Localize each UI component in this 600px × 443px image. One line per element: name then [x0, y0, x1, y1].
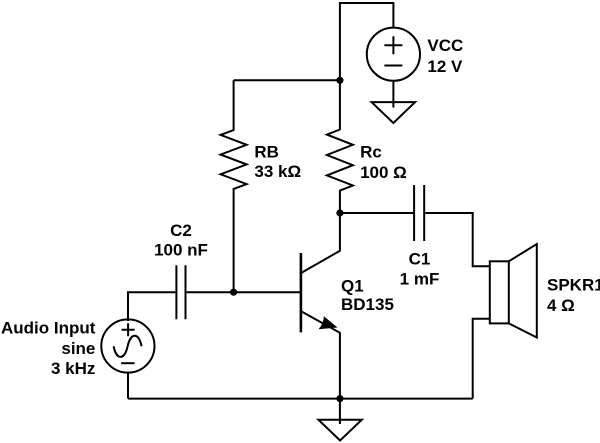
svg-text:Q1: Q1 [341, 276, 364, 295]
capacitor C2 plates [176, 265, 185, 319]
wire C1 to speaker top [425, 213, 490, 266]
audio plus sign [122, 323, 135, 336]
audio sine wave [114, 336, 142, 357]
node dot RB/Rc top [336, 77, 343, 84]
svg-text:BD135: BD135 [341, 295, 394, 314]
svg-text:VCC: VCC [427, 36, 463, 55]
wire audio source to C2 [128, 292, 175, 321]
transistor Q1 emitter [302, 312, 340, 399]
svg-text:RB: RB [254, 143, 279, 162]
svg-text:C2: C2 [170, 221, 192, 240]
wire speaker bottom to rail [473, 319, 490, 399]
wire VCC ground stem [392, 81, 394, 108]
resistor RB [221, 80, 247, 292]
svg-text:3 kHz: 3 kHz [51, 359, 95, 378]
node dot emitter/ground [336, 395, 343, 402]
wire ground stem bottom [339, 399, 341, 424]
svg-text:Audio Input: Audio Input [1, 319, 96, 338]
transistor Q1 emitter arrowhead [319, 316, 338, 329]
svg-text:100 Ω: 100 Ω [360, 163, 407, 182]
ground (bottom) [318, 420, 361, 441]
wire collector node to C1 [340, 212, 413, 214]
svg-text:12 V: 12 V [427, 57, 463, 76]
transistor Q1 base bar [300, 253, 303, 332]
resistor Rc [327, 80, 353, 213]
svg-text:SPKR1: SPKR1 [547, 276, 600, 295]
wire audio source bottom [127, 373, 129, 399]
voltage source Audio Input circle [101, 319, 154, 372]
svg-text:C1: C1 [409, 249, 431, 268]
ground (VCC) [372, 102, 416, 123]
VCC minus sign [384, 65, 402, 67]
audio minus sign [121, 362, 135, 364]
capacitor C1 plates [414, 185, 424, 241]
svg-text:33 kΩ: 33 kΩ [254, 162, 301, 181]
VCC plus sign [384, 36, 402, 54]
svg-text:100 nF: 100 nF [154, 241, 208, 260]
node dot collector [336, 209, 343, 216]
svg-text:sine: sine [61, 339, 95, 358]
speaker SPKR1 body [490, 261, 509, 323]
wire RB top horizontal [234, 79, 340, 81]
wire top rail from Rc branch to VCC [340, 3, 394, 80]
svg-text:1 mF: 1 mF [400, 269, 440, 288]
transistor Q1 collector [302, 213, 340, 273]
speaker SPKR1 cone [509, 244, 537, 338]
wire base from C2 to Q1 [187, 291, 300, 293]
wire bottom rail [128, 398, 473, 400]
svg-text:Rc: Rc [360, 142, 382, 161]
voltage source VCC circle [367, 28, 420, 81]
svg-text:4 Ω: 4 Ω [547, 296, 575, 315]
node dot base [230, 289, 237, 296]
